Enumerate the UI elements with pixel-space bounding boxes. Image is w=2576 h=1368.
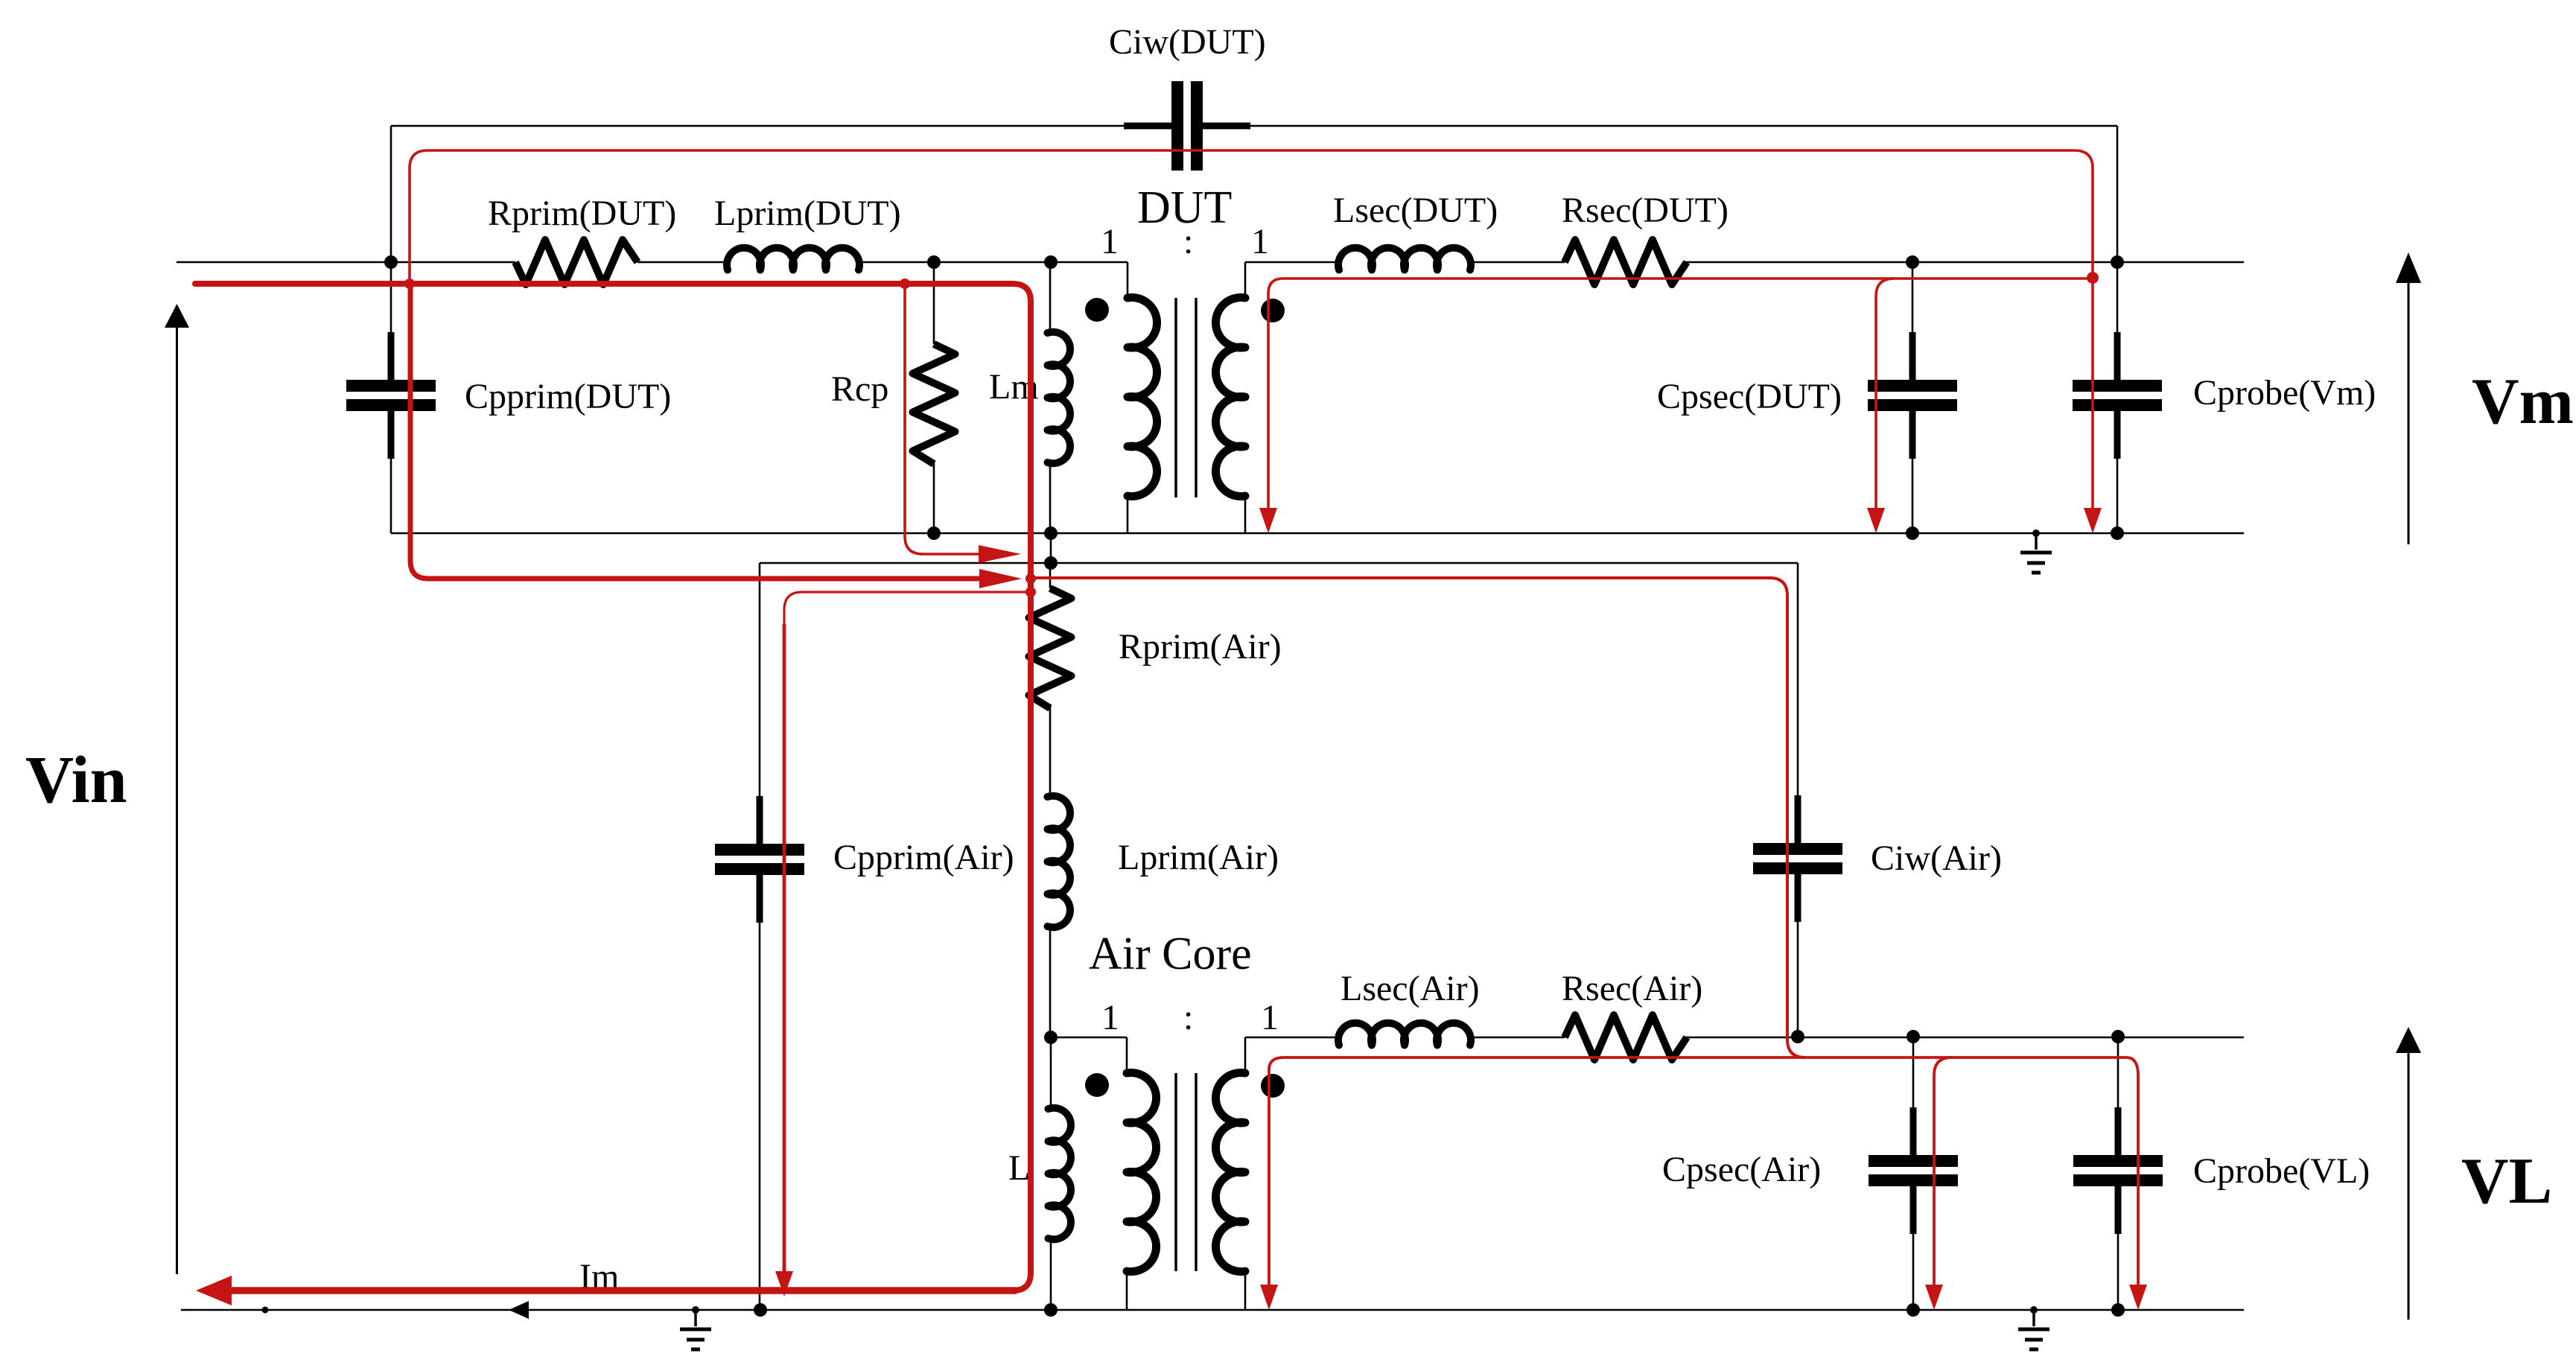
wire air secondary top [1245, 1037, 1339, 1039]
node air transformer top [1044, 1031, 1058, 1044]
wire Rcp bottom lead [933, 460, 935, 533]
node red at Ciw(DUT) junction [2087, 272, 2099, 284]
wire DUT secondary bottom jog [1244, 497, 1247, 533]
capacitor Cprobe(Vm) [2073, 332, 2162, 459]
capacitor Cprobe(VL) [2073, 1107, 2163, 1234]
wire Ciw(Air) top lead [1797, 563, 1799, 795]
ground bottom right [2018, 1306, 2049, 1349]
wire air primary top jog [1126, 1037, 1128, 1073]
label VL [2461, 1145, 2552, 1218]
svg-text:Cpprim(DUT): Cpprim(DUT) [465, 377, 671, 416]
label DUT [1137, 182, 1232, 233]
node bottom rail at air transformer [1044, 1303, 1058, 1317]
svg-text:L: L [1008, 1148, 1030, 1188]
svg-text::: : [1183, 222, 1193, 261]
label Ciw(Air) [1871, 839, 2002, 878]
wire DUT secondary top jog [1244, 262, 1247, 298]
wire Rprim(Air)-Lprim(Air) [1049, 705, 1052, 797]
svg-text:Ciw(DUT): Ciw(DUT) [1109, 22, 1266, 62]
capacitor Cpsec(Air) [1869, 1107, 1958, 1234]
svg-text:1: 1 [1101, 222, 1119, 261]
label Lsec(DUT) [1333, 191, 1498, 230]
wire bottom rail [181, 1309, 2244, 1311]
wire Cpsec(Air) bottom lead [1912, 1234, 1915, 1310]
resistor Rprim(DUT) [515, 240, 637, 284]
wire red DUT secondary path [1259, 279, 2093, 533]
svg-text:VL: VL [2461, 1145, 2552, 1218]
inductor Lprim(DUT) [727, 248, 859, 270]
capacitor Cpprim(DUT) [346, 332, 436, 459]
inductor Lprim(Air) [1048, 796, 1070, 928]
wire top box right edge [2117, 126, 2119, 262]
wire top box top edge left of Ciw [391, 125, 1171, 127]
svg-text:Vm: Vm [2472, 366, 2574, 438]
wire top box left edge upper [390, 126, 392, 332]
wire Rsec(DUT) to right [1685, 261, 2244, 264]
node primary wire at Rcp [927, 255, 941, 269]
node red at Rcp branch [900, 279, 910, 289]
inductor Lm [1048, 332, 1070, 464]
wire red Air secondary path [1260, 1057, 2147, 1310]
wire air primary bottom jog [1126, 1271, 1128, 1310]
svg-text:1: 1 [1261, 998, 1279, 1037]
wire Lsec-Rsec DUT [1470, 261, 1565, 264]
label Lprim(Air) [1118, 838, 1279, 877]
wire air transformer top wire [1051, 1037, 1127, 1039]
svg-text:Lprim(Air): Lprim(Air) [1118, 838, 1279, 877]
node primary wire at Cpprim [384, 255, 398, 269]
svg-text:Cpsec(DUT): Cpsec(DUT) [1657, 377, 1842, 416]
wire Cpsec(Air) top lead [1912, 1037, 1915, 1107]
arrow Vin [165, 304, 189, 1274]
capacitor Ciw(DUT) [1124, 81, 1250, 171]
label Rsec(Air) [1562, 969, 1702, 1008]
label 1 left Air [1101, 998, 1119, 1037]
label Cprobe(Vm) [2193, 373, 2376, 413]
wire red Cpsec(Air) branch [1925, 1057, 1952, 1310]
inductor L [1049, 1108, 1071, 1240]
node bottom rail small [262, 1307, 269, 1314]
label Cprobe(VL) [2193, 1151, 2370, 1191]
label Cpprim(Air) [833, 838, 1014, 877]
svg-text:Lprim(DUT): Lprim(DUT) [714, 194, 901, 233]
arrow VL [2396, 1027, 2421, 1320]
label Im [579, 1257, 619, 1297]
ground bottom left [680, 1306, 711, 1349]
svg-text:1: 1 [1251, 222, 1269, 261]
capacitor Cpsec(DUT) [1868, 332, 1957, 459]
svg-text:Rsec(DUT): Rsec(DUT) [1562, 191, 1729, 230]
label 1 right DUT [1251, 222, 1269, 261]
node VL wire at Cprobe(VL) [2111, 1030, 2125, 1043]
wire L bottom lead [1050, 1238, 1052, 1310]
node DUT secondary polarity dot [1261, 299, 1285, 322]
label Lsec(Air) [1341, 969, 1480, 1008]
inductor Lsec(Air) [1338, 1023, 1471, 1046]
node air box top at primary chain [1044, 556, 1058, 570]
label colon Air [1183, 998, 1193, 1037]
svg-text:Cpprim(Air): Cpprim(Air) [833, 838, 1014, 877]
transformer Air secondary winding [1215, 1073, 1245, 1272]
wire air secondary top jog [1244, 1037, 1247, 1073]
resistor Rcp [913, 344, 955, 464]
wire red Ciw(Air) path [1034, 578, 1805, 1057]
wire Rprim(Air) top lead [1049, 563, 1052, 588]
svg-text::: : [1183, 998, 1193, 1037]
resistor Rsec(Air) [1565, 1015, 1687, 1060]
wire air box left edge lower [759, 923, 761, 1310]
node red at Cpprim branch [404, 279, 415, 289]
transformer DUT core [1176, 298, 1196, 497]
wire air box left edge upper [759, 563, 761, 796]
node secondary wire at Cpsec(DUT) [1906, 255, 1919, 269]
label Cpsec(DUT) [1657, 377, 1842, 416]
wire Cprobe(Vm) bottom lead [2117, 459, 2119, 533]
wire L top lead [1050, 1037, 1052, 1109]
svg-text:Cprobe(VL): Cprobe(VL) [2193, 1151, 2370, 1191]
ground top box [2020, 529, 2052, 573]
svg-text:Cprobe(Vm): Cprobe(Vm) [2193, 373, 2376, 413]
wire red Ciw(DUT) path [410, 150, 2102, 533]
node VL wire at Cpsec(Air) [1906, 1030, 1920, 1043]
node primary wire at Lm [1044, 255, 1058, 269]
node bottom rail at Cpsec(DUT) [1906, 526, 1919, 540]
svg-text:Ciw(Air): Ciw(Air) [1871, 839, 2002, 878]
inductor Lsec(DUT) [1338, 248, 1471, 270]
label L [1008, 1148, 1030, 1188]
label 1 right Air [1261, 998, 1279, 1037]
wire red Cpsec(DUT) branch [1867, 279, 1894, 533]
wire top box top edge right of Ciw [1203, 125, 2117, 127]
arrow Vm [2396, 252, 2421, 544]
wire air secondary bottom jog [1244, 1271, 1247, 1310]
label Rsec(DUT) [1562, 191, 1729, 230]
label Ciw(DUT) [1109, 22, 1266, 62]
label Air Core [1089, 929, 1252, 979]
wire DUT primary top jog [1127, 262, 1129, 298]
node red at Ciw(Air) branch [1025, 573, 1036, 584]
label Cpsec(Air) [1662, 1150, 1821, 1189]
capacitor Ciw(Air) [1753, 795, 1842, 922]
wire Cprobe(Vm) top lead [2117, 262, 2119, 332]
label 1 left DUT [1101, 222, 1119, 261]
wire Cpsec(DUT) bottom lead [1912, 459, 1914, 533]
wire Cprobe(VL) bottom lead [2117, 1234, 2119, 1310]
svg-text:1: 1 [1101, 998, 1119, 1037]
label Rcp [831, 369, 888, 409]
wire Rsec(Air) to right [1685, 1037, 2244, 1039]
wire Ciw(Air) bottom lead [1797, 922, 1799, 1037]
resistor Rsec(DUT) [1565, 240, 1687, 284]
label colon DUT [1183, 222, 1193, 261]
node red at Cpprim(Air) branch [1025, 587, 1036, 597]
arrow return current marker [509, 1301, 529, 1319]
wire DUT secondary top [1245, 261, 1339, 264]
transformer DUT primary winding [1128, 297, 1157, 496]
node bottom rail at Lm [1044, 526, 1058, 540]
wire Cpsec(DUT) top lead [1912, 262, 1914, 332]
node bottom rail at Cpprim(Air) [754, 1303, 767, 1317]
node Air primary polarity dot [1085, 1073, 1109, 1097]
resistor Rprim(Air) [1029, 588, 1072, 708]
svg-text:Vin: Vin [25, 743, 127, 817]
wire Lprim(Air) bottom lead [1049, 926, 1052, 1037]
label Cpprim(DUT) [465, 377, 671, 416]
transformer Air core [1176, 1073, 1196, 1271]
wire Lm top lead [1049, 262, 1052, 333]
wire Lsec-Rsec Air [1470, 1037, 1565, 1039]
svg-text:Rcp: Rcp [831, 369, 888, 409]
transformer DUT secondary winding [1215, 298, 1245, 497]
svg-text:Lsec(Air): Lsec(Air) [1341, 969, 1480, 1008]
svg-text:Lsec(DUT): Lsec(DUT) [1333, 191, 1498, 230]
wire Cprobe(VL) top lead [2117, 1037, 2119, 1107]
node bottom rail at Cprobe(VL) [2111, 1303, 2125, 1317]
node bottom rail at Cprobe(Vm) [2111, 526, 2124, 540]
wire DUT primary bottom jog [1127, 497, 1129, 533]
transformer Air primary winding [1127, 1072, 1157, 1271]
label Rprim(DUT) [488, 194, 676, 233]
wire link DUT bottom to Air top [1050, 533, 1052, 563]
label Lprim(DUT) [714, 194, 901, 233]
svg-text:Rprim(Air): Rprim(Air) [1119, 627, 1282, 666]
wire red main current loop [195, 284, 1031, 1305]
wire Lprim-transformer [859, 261, 1128, 264]
node DUT primary polarity dot [1085, 298, 1109, 322]
wire Lm bottom lead [1049, 462, 1052, 533]
wire Rprim-Lprim [637, 261, 728, 264]
wire red Cpprim(Air) branch [775, 592, 1031, 1297]
wire red Cpprim(DUT) branch [410, 284, 1022, 588]
wire red Rcp branch [905, 284, 1021, 563]
svg-text:Rprim(DUT): Rprim(DUT) [488, 194, 676, 233]
node bottom rail at Rcp [927, 526, 941, 540]
label Vin [25, 743, 127, 817]
label Vm [2472, 366, 2574, 438]
node Air secondary polarity dot [1261, 1074, 1285, 1098]
svg-text:Cpsec(Air): Cpsec(Air) [1662, 1150, 1821, 1189]
wire air box top edge [760, 562, 1798, 564]
wire Rcp top lead [933, 262, 935, 344]
label Lm [989, 367, 1039, 407]
capacitor Cpprim(Air) [715, 796, 804, 923]
svg-text:Air Core: Air Core [1089, 929, 1252, 979]
label Rprim(Air) [1119, 627, 1282, 666]
svg-text:Rsec(Air): Rsec(Air) [1562, 969, 1702, 1008]
node bottom rail at Cpsec(Air) [1906, 1303, 1920, 1317]
node secondary wire at Cprobe(Vm) [2111, 255, 2124, 269]
wire Cpprim(DUT) bottom lead [390, 459, 392, 533]
node VL wire at Ciw(Air) [1791, 1030, 1804, 1043]
wire input top [176, 261, 515, 264]
wire top box bottom rail [391, 532, 2244, 535]
